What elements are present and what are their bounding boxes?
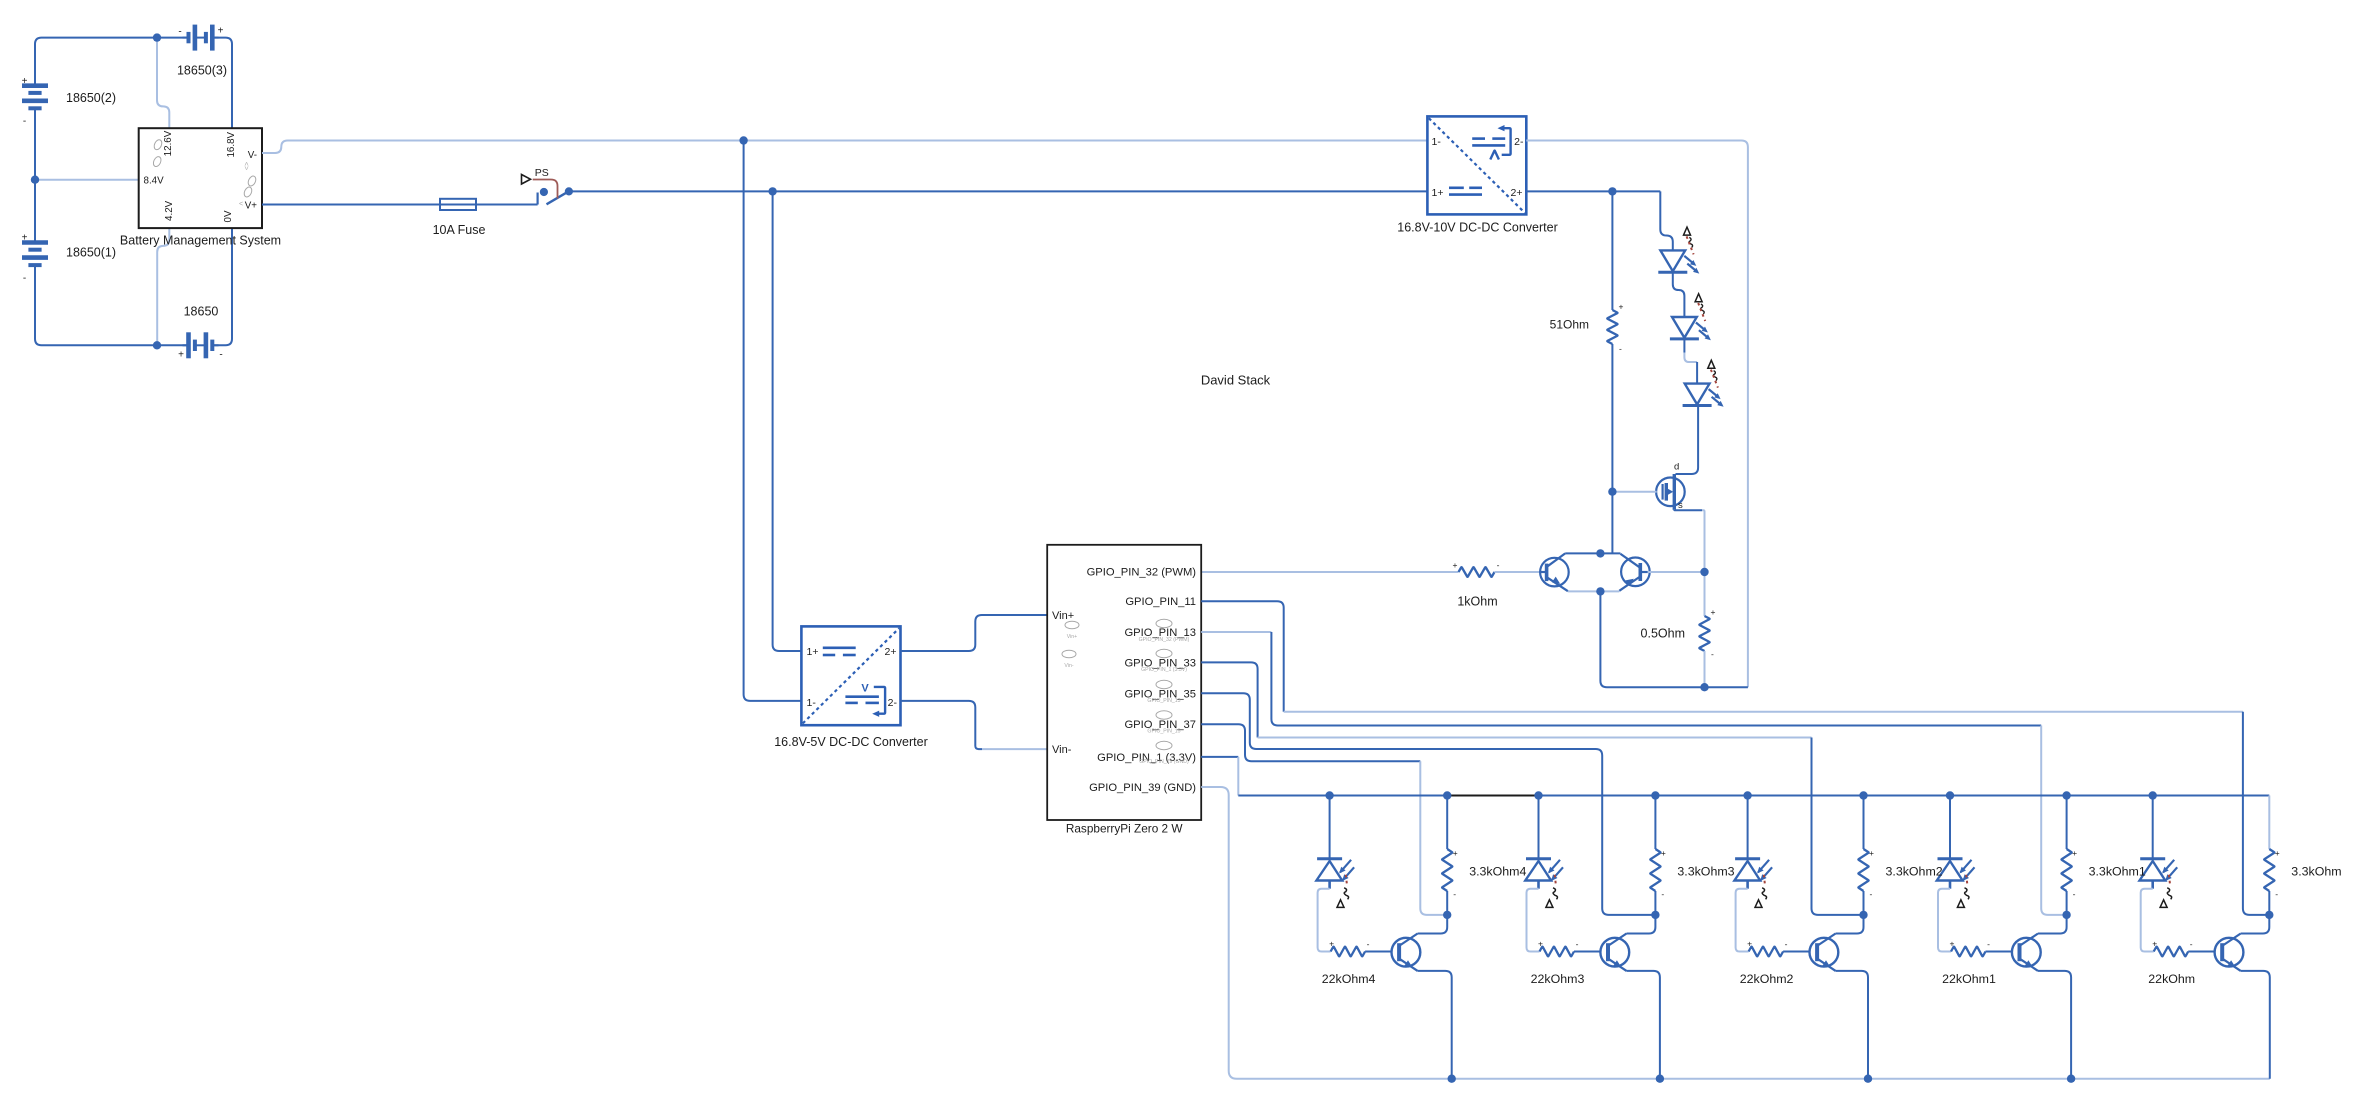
wire GPIO_PIN_33 net bbox=[1201, 662, 1863, 915]
svg-text:+: + bbox=[1711, 607, 1716, 617]
svg-text:GPIO_PIN_29 (GND): GPIO_PIN_29 (GND) bbox=[1139, 759, 1189, 765]
LED D1 bbox=[1658, 250, 1699, 273]
wire rail to 3.3kOhm3 bbox=[1654, 796, 1656, 850]
svg-text:1+: 1+ bbox=[807, 646, 819, 658]
BMS pin marker ellipse 4 bbox=[243, 186, 254, 198]
wire LED to 22kOhm4 bbox=[1318, 889, 1331, 952]
svg-text:+: + bbox=[178, 350, 184, 361]
junction 3.3V rail at 3.3kOhm1 column bbox=[2062, 791, 2070, 799]
LED annotation marker (block 0) bbox=[2160, 875, 2172, 908]
svg-text:-: - bbox=[1453, 889, 1456, 899]
svg-text:-: - bbox=[1367, 939, 1370, 949]
svg-text:Vin+: Vin+ bbox=[1052, 610, 1074, 622]
svg-text:+: + bbox=[1453, 848, 1458, 858]
svg-text:GPIO_PIN_1 (3.3V): GPIO_PIN_1 (3.3V) bbox=[1141, 667, 1187, 673]
resistor 3.3kOhm bbox=[2264, 849, 2274, 891]
svg-text:+: + bbox=[218, 26, 224, 37]
svg-text:<>: <> bbox=[244, 162, 251, 170]
junction gate node bbox=[1608, 488, 1616, 496]
svg-text:GPIO_PIN_32 (PWM): GPIO_PIN_32 (PWM) bbox=[1139, 637, 1190, 643]
wire 22kOhm2 to base bbox=[1783, 951, 1815, 953]
svg-text:-: - bbox=[2073, 889, 2076, 899]
wire LED cathode stub (block 1) bbox=[1949, 881, 1952, 889]
wire U2 2- to RasPi Vin- bbox=[901, 701, 1048, 749]
wire 1kOhm to Q2 base bbox=[1495, 571, 1541, 573]
RasPi ghost pin marker 4 bbox=[1147, 711, 1180, 735]
svg-text:12.6V: 12.6V bbox=[163, 130, 174, 156]
wire 3.3kOhm3 to collector node bbox=[1654, 891, 1656, 915]
fuse F1 10A body bbox=[440, 199, 476, 210]
junction GND rail (block 2) bbox=[1864, 1075, 1872, 1083]
junction collector node (block 2) bbox=[1859, 911, 1867, 919]
svg-text:-: - bbox=[1576, 939, 1579, 949]
switch PS actuator bracket bbox=[533, 180, 558, 199]
battery 18650(3) bbox=[183, 25, 219, 51]
wire LED to 22kOhm1 bbox=[1938, 889, 1951, 952]
junction 3.3V rail at 3.3kOhm2 column bbox=[1859, 791, 1867, 799]
svg-text:+: + bbox=[1747, 939, 1752, 949]
svg-text:+: + bbox=[1661, 848, 1666, 858]
wire LED to 22kOhm bbox=[2141, 889, 2154, 952]
wire 3.3kOhm2 to collector node bbox=[1863, 891, 1865, 915]
LED annotation marker (block 4) bbox=[1337, 875, 1349, 908]
wire Q1 source to output node bbox=[1674, 509, 1702, 511]
LED D10 bbox=[2140, 859, 2178, 881]
wire GPIO_PIN_35 net bbox=[1201, 693, 1655, 915]
BMS pin marker ellipse 1 bbox=[153, 139, 164, 151]
wire driver pair top rail bbox=[1565, 552, 1620, 554]
RasPi ghost marker Vin- bbox=[1062, 650, 1076, 669]
transistor Q3 PNP bbox=[1619, 554, 1649, 591]
wire D2 cathode to D3 anode upper bbox=[1683, 339, 1685, 353]
wire collector to node (block 2) bbox=[1836, 915, 1864, 934]
svg-text:GPIO_PIN_11: GPIO_PIN_11 bbox=[1125, 596, 1196, 608]
resistor 3.3kOhm2 bbox=[1858, 849, 1868, 891]
wire 22kOhm1 to base bbox=[1986, 951, 2018, 953]
svg-text:+: + bbox=[1950, 939, 1955, 949]
resistor 3.3kOhm4 bbox=[1442, 849, 1452, 891]
wire LED cathode stub (block 0) bbox=[2151, 881, 2154, 889]
converter U2 16.8V-5V box bbox=[801, 626, 900, 725]
BMS pin marker ellipse 3 bbox=[247, 175, 258, 187]
svg-text:-: - bbox=[1785, 939, 1788, 949]
wire Q1 source corner to output node bbox=[1702, 510, 1705, 572]
switch PS pole stub bbox=[536, 193, 538, 205]
svg-text:1-: 1- bbox=[1432, 136, 1442, 148]
wire emitter to GND rail (block 2) bbox=[1836, 971, 1868, 1079]
LED D12 bbox=[1734, 859, 1772, 881]
wire rail to LED (block 1) bbox=[1949, 796, 1951, 859]
junction node 8.4V tap bbox=[31, 176, 39, 184]
svg-text:GPIO_PIN_32 (PWM): GPIO_PIN_32 (PWM) bbox=[1087, 567, 1197, 579]
wire V+ down to 5V converter 1+ bbox=[773, 191, 802, 651]
wire emitter to GND rail (block 0) bbox=[2241, 971, 2270, 1079]
junction 3.3V rail at LED2 column bbox=[1743, 791, 1751, 799]
svg-text:-: - bbox=[1619, 344, 1622, 354]
wire D1 cathode to D2 anode bbox=[1673, 272, 1685, 317]
transistor Q2 NPN bbox=[1540, 553, 1569, 591]
junction GND rail (block 1) bbox=[2067, 1075, 2075, 1083]
LED annotation marker (block 3) bbox=[1546, 875, 1558, 908]
svg-text:+: + bbox=[2072, 848, 2077, 858]
svg-text:+: + bbox=[2275, 848, 2280, 858]
resistor 22kOhm3 bbox=[1540, 947, 1575, 957]
transistor Q24 NPN driver bbox=[1392, 934, 1421, 971]
svg-text:3.3kOhm2: 3.3kOhm2 bbox=[1886, 865, 1943, 879]
svg-text:d: d bbox=[1674, 462, 1679, 473]
wire LED cathode stub (block 4) bbox=[1328, 881, 1331, 889]
LED annotation marker (block 2) bbox=[1755, 875, 1767, 908]
wire GPIO_PIN_13 net bbox=[1201, 632, 2066, 915]
junction node top (batteries 2/3 and 12.6V tap) bbox=[153, 33, 161, 41]
svg-text:18650: 18650 bbox=[184, 305, 219, 319]
junction node bottom (battery1/18650 and 4.2V tap) bbox=[153, 341, 161, 349]
svg-text:3.3kOhm4: 3.3kOhm4 bbox=[1469, 865, 1526, 879]
IC RaspberryPi Zero 2 W box bbox=[1047, 545, 1201, 820]
wire 0.5Ohm to return bus bbox=[1704, 651, 1706, 687]
svg-text:10A Fuse: 10A Fuse bbox=[433, 223, 486, 237]
wire V- down to 5V converter 1- bbox=[744, 141, 802, 701]
switch PS throw contact bbox=[565, 187, 573, 195]
junction GND rail (block 3) bbox=[1656, 1075, 1664, 1083]
converter U1 regulation loop arrow bbox=[1490, 125, 1510, 160]
LED D2 annotation marker bbox=[1695, 294, 1705, 321]
svg-text:1-: 1- bbox=[807, 697, 817, 709]
resistor 3.3kOhm3 bbox=[1650, 849, 1660, 891]
svg-text:-: - bbox=[23, 273, 26, 284]
wire switch to converter U1 pin 1+ bbox=[569, 190, 1428, 192]
wire rail to LED (block 3) bbox=[1538, 796, 1540, 859]
battery 18650(2) bbox=[22, 86, 48, 109]
switch PS pole contact bbox=[540, 188, 548, 196]
wire fuse to switch bbox=[476, 204, 538, 206]
svg-text:2-: 2- bbox=[1514, 136, 1524, 148]
transistor Q1 MOSFET bbox=[1656, 474, 1685, 510]
LED D2 bbox=[1670, 317, 1711, 340]
wire battery2 bottom to node 8.4V bbox=[34, 108, 36, 179]
junction collector node (block 4) bbox=[1443, 911, 1451, 919]
svg-text:+: + bbox=[1453, 560, 1458, 570]
svg-text:22kOhm1: 22kOhm1 bbox=[1942, 972, 1996, 986]
junction collector node (block 1) bbox=[2062, 911, 2070, 919]
svg-text:-: - bbox=[1497, 560, 1500, 570]
junction V+ net to 5V converter bbox=[768, 187, 776, 195]
wire rail to LED (block 2) bbox=[1747, 796, 1749, 859]
svg-text:<: < bbox=[239, 201, 243, 208]
svg-text:2+: 2+ bbox=[1511, 187, 1523, 199]
wire D3 anode entry bbox=[1696, 362, 1698, 384]
wire 51Ohm to gate node bbox=[1611, 344, 1613, 492]
svg-text:-: - bbox=[178, 27, 181, 38]
wire U1 2- to LED return bbox=[1526, 141, 1748, 688]
resistor 1kOhm bbox=[1459, 567, 1495, 577]
junction collector node (block 3) bbox=[1651, 911, 1659, 919]
LED D13 bbox=[1525, 859, 1563, 881]
junction 3.3V rail at LED3 column bbox=[1534, 791, 1542, 799]
wire 8.4V tap to BMS bbox=[35, 179, 139, 181]
converter U1 16.8V-10V box bbox=[1427, 116, 1526, 214]
wire rail to 3.3kOhm4 bbox=[1446, 796, 1448, 850]
wire node to battery1 top bbox=[34, 180, 36, 243]
wire return bus bbox=[1650, 686, 1748, 688]
svg-text:+: + bbox=[1538, 939, 1543, 949]
wire GPIO_PIN_39 GND rail bbox=[1201, 787, 2270, 1079]
switch PS triangle marker bbox=[522, 175, 531, 185]
wire driver pair bottom rail bbox=[1568, 590, 1619, 592]
wire emitter to GND rail (block 4) bbox=[1418, 971, 1452, 1079]
wire U1 2+ output bbox=[1526, 190, 1660, 192]
LED D14 bbox=[1316, 859, 1354, 881]
svg-text:+: + bbox=[22, 233, 28, 244]
wire 3.3kOhm1 to collector node bbox=[2066, 891, 2068, 915]
resistor 22kOhm bbox=[2154, 947, 2189, 957]
wire gate to Q1 bbox=[1612, 491, 1656, 493]
svg-text:2-: 2- bbox=[888, 697, 898, 709]
svg-text:18650(1): 18650(1) bbox=[66, 246, 116, 260]
wire collector to node (block 1) bbox=[2038, 915, 2067, 934]
svg-text:-: - bbox=[1711, 649, 1714, 659]
svg-text:David Stack: David Stack bbox=[1201, 372, 1271, 387]
svg-text:22kOhm4: 22kOhm4 bbox=[1322, 972, 1376, 986]
svg-text:Vin-: Vin- bbox=[1064, 663, 1073, 669]
svg-text:GPIO_PIN_15: GPIO_PIN_15 bbox=[1147, 729, 1180, 735]
svg-text:1kOhm: 1kOhm bbox=[1457, 595, 1497, 609]
wire 3.3kOhm4 to collector node bbox=[1446, 891, 1448, 915]
wire emitter to GND rail (block 1) bbox=[2038, 971, 2071, 1079]
junction 3.3V rail at LED1 column bbox=[1946, 791, 1954, 799]
svg-text:Vin-: Vin- bbox=[1052, 744, 1072, 756]
wire 22kOhm3 to base bbox=[1574, 951, 1606, 953]
svg-text:PS: PS bbox=[535, 167, 549, 179]
svg-text:22kOhm: 22kOhm bbox=[2148, 972, 2195, 986]
junction return bus bbox=[1700, 683, 1708, 691]
wire output node to 0.5Ohm bbox=[1704, 572, 1706, 616]
wire GPIO_PIN_1 3.3V rail bbox=[1201, 757, 2269, 796]
junction 3.3V rail at 3.3kOhm4 column bbox=[1443, 791, 1451, 799]
svg-text:0V: 0V bbox=[223, 210, 234, 222]
converter U2 DC symbol upper bbox=[823, 648, 856, 655]
wire LED cathode stub (block 3) bbox=[1537, 881, 1540, 889]
wire rail to 3.3kOhm2 bbox=[1863, 796, 1865, 850]
svg-text:16.8V: 16.8V bbox=[226, 131, 237, 157]
svg-text:3.3kOhm1: 3.3kOhm1 bbox=[2089, 865, 2146, 879]
resistor 3.3kOhm1 bbox=[2061, 849, 2071, 891]
wire bottom rail to return bus bbox=[1600, 591, 1650, 687]
LED annotation marker (block 1) bbox=[1957, 875, 1969, 908]
junction bottom rail bbox=[1596, 587, 1604, 595]
svg-text:-: - bbox=[23, 116, 26, 127]
svg-text:18650(3): 18650(3) bbox=[177, 64, 227, 78]
wire D2 cathode to D3 anode light segment bbox=[1684, 353, 1697, 363]
RasPi ghost pin marker 5 bbox=[1139, 741, 1189, 765]
svg-text:22kOhm2: 22kOhm2 bbox=[1740, 972, 1794, 986]
wire collector to node (block 4) bbox=[1418, 915, 1448, 934]
wire rail to 3.3kOhm bbox=[2268, 796, 2270, 850]
wire gate node down to driver rail bbox=[1611, 492, 1613, 554]
junction GND rail (block 4) bbox=[1448, 1075, 1456, 1083]
resistor 22kOhm2 bbox=[1749, 947, 1784, 957]
wire 22kOhm to base bbox=[2188, 951, 2220, 953]
svg-text:8.4V: 8.4V bbox=[144, 175, 165, 186]
junction output node bbox=[1700, 568, 1708, 576]
svg-text:-: - bbox=[2275, 889, 2278, 899]
svg-text:+: + bbox=[1329, 939, 1334, 949]
RasPi ghost pin marker 3 bbox=[1147, 680, 1180, 704]
converter U2 regulation loop arrow bbox=[861, 683, 885, 717]
junction 3.3V rail at LED4 column bbox=[1325, 791, 1333, 799]
wire rail to LED (block 0) bbox=[2152, 796, 2154, 859]
converter U1 DC symbol upper bbox=[1472, 139, 1505, 146]
svg-text:18650(2): 18650(2) bbox=[66, 91, 116, 105]
svg-text:4.2V: 4.2V bbox=[164, 200, 175, 221]
wire rail to 3.3kOhm1 bbox=[2066, 796, 2068, 850]
junction collector node (block 0) bbox=[2265, 911, 2273, 919]
wire 12.6V tap to BMS bbox=[157, 38, 169, 129]
RasPi ghost marker Vin+ bbox=[1065, 621, 1079, 640]
wire BMS V- to converter U1 pin 1- bbox=[262, 141, 1427, 154]
wire 4.2V tap from BMS bbox=[157, 228, 169, 345]
LED D3 bbox=[1683, 384, 1724, 407]
wire GPIO_PIN_11 net bbox=[1201, 601, 2269, 915]
switch PS blade bbox=[547, 192, 568, 204]
transistor Q22 NPN driver bbox=[1810, 934, 1839, 971]
wire U2 2+ to RasPi Vin+ bbox=[901, 615, 1048, 651]
wire LED to 22kOhm2 bbox=[1736, 889, 1749, 952]
wire 22kOhm4 to base bbox=[1365, 951, 1397, 953]
LED D3 annotation marker bbox=[1708, 360, 1718, 387]
svg-text:1+: 1+ bbox=[1432, 187, 1444, 199]
wire BMS V+ to fuse bbox=[262, 204, 440, 206]
transistor Q21 NPN driver bbox=[2012, 934, 2041, 971]
wire Q3 base to output node bbox=[1648, 571, 1705, 573]
svg-text:+: + bbox=[1619, 302, 1624, 312]
svg-text:+: + bbox=[22, 76, 28, 87]
svg-text:22kOhm3: 22kOhm3 bbox=[1531, 972, 1585, 986]
svg-text:GPIO_PIN_39 (GND): GPIO_PIN_39 (GND) bbox=[1089, 782, 1196, 794]
RasPi ghost pin marker 2 bbox=[1141, 649, 1187, 673]
svg-text:V-: V- bbox=[248, 150, 257, 161]
svg-text:3.3kOhm3: 3.3kOhm3 bbox=[1677, 865, 1734, 879]
wire battery stack top rail bbox=[35, 38, 187, 86]
wire 3.3kOhm to collector node bbox=[2268, 891, 2270, 915]
svg-text:51Ohm: 51Ohm bbox=[1550, 318, 1589, 332]
resistor 22kOhm4 bbox=[1331, 947, 1366, 957]
svg-text:-: - bbox=[1870, 889, 1873, 899]
svg-text:16.8V-5V DC-DC Converter: 16.8V-5V DC-DC Converter bbox=[774, 735, 928, 749]
wire 10V node down to 51Ohm bbox=[1611, 191, 1613, 310]
junction 3.3V rail at 3.3kOhm3 column bbox=[1651, 791, 1659, 799]
svg-text:-: - bbox=[219, 350, 222, 361]
wire LED to 22kOhm3 bbox=[1527, 889, 1540, 952]
LED D1 annotation marker bbox=[1684, 227, 1694, 254]
svg-text:3.3kOhm: 3.3kOhm bbox=[2291, 865, 2341, 879]
converter U1 DC symbol lower bbox=[1449, 188, 1482, 195]
wire battery3 to BMS 16.8V pin bbox=[212, 38, 232, 129]
svg-text:16.8V-10V DC-DC Converter: 16.8V-10V DC-DC Converter bbox=[1397, 220, 1557, 234]
resistor 51Ohm bbox=[1607, 310, 1617, 344]
transistor Q20 NPN driver bbox=[2215, 934, 2244, 971]
resistor 22kOhm1 bbox=[1951, 947, 1986, 957]
svg-text:Vin+: Vin+ bbox=[1067, 634, 1077, 640]
wire collector to node (block 3) bbox=[1627, 915, 1656, 934]
svg-text:RaspberryPi Zero 2 W: RaspberryPi Zero 2 W bbox=[1066, 822, 1184, 836]
svg-text:+: + bbox=[1869, 848, 1874, 858]
svg-text:-: - bbox=[1987, 939, 1990, 949]
svg-text:-: - bbox=[1661, 889, 1664, 899]
svg-text:V+: V+ bbox=[245, 200, 258, 211]
IC U-BMS Battery Management System box bbox=[139, 128, 262, 228]
wire collector to node (block 0) bbox=[2241, 915, 2270, 934]
wire 10V to LED D1 anode bbox=[1660, 191, 1673, 250]
svg-text:GPIO_PIN_13: GPIO_PIN_13 bbox=[1147, 698, 1180, 704]
wire battery1 bottom rail bbox=[35, 265, 187, 345]
svg-text:-: - bbox=[2190, 939, 2193, 949]
wire emitter to GND rail (block 3) bbox=[1627, 971, 1660, 1079]
junction 3.3V rail at LED0 column bbox=[2149, 791, 2157, 799]
converter U2 DC symbol lower bbox=[845, 697, 879, 703]
resistor 0.5Ohm bbox=[1699, 616, 1709, 651]
RasPi ghost pin marker 1 bbox=[1139, 619, 1190, 643]
wire GPIO_PIN_37 net bbox=[1201, 724, 1447, 915]
svg-text:0.5Ohm: 0.5Ohm bbox=[1641, 626, 1685, 640]
battery 18650 (bottom) bbox=[183, 332, 219, 358]
junction 10V output node bbox=[1608, 187, 1616, 195]
junction V- net to 5V converter bbox=[739, 136, 747, 144]
wire D3 cathode to MOSFET drain bbox=[1676, 406, 1699, 474]
wire GPIO_PIN_32 to 1kOhm bbox=[1201, 571, 1458, 573]
svg-text:Battery Management System: Battery Management System bbox=[120, 233, 281, 247]
svg-text:V: V bbox=[861, 683, 869, 695]
svg-text:2+: 2+ bbox=[885, 646, 897, 658]
battery 18650(1) bbox=[22, 243, 48, 266]
LED D11 bbox=[1937, 859, 1975, 881]
junction top rail bbox=[1596, 549, 1604, 557]
svg-text:+: + bbox=[2152, 939, 2157, 949]
transistor Q23 NPN driver bbox=[1600, 934, 1629, 971]
wire rail to LED (block 4) bbox=[1329, 796, 1331, 859]
wire battery 18650 to BMS 0V pin bbox=[212, 228, 232, 345]
wire LED cathode stub (block 2) bbox=[1746, 881, 1749, 889]
BMS pin marker ellipse 2 bbox=[152, 155, 163, 167]
